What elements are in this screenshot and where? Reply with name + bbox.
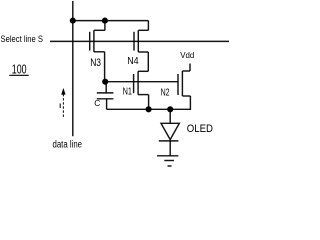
transistor N2 <box>178 64 190 97</box>
svg-text:N4: N4 <box>127 55 139 67</box>
node A wire (N3 source to N1/N2 gates) <box>105 81 178 83</box>
junction dot: top rail / N3 drain <box>102 18 108 24</box>
svg-text:OLED: OLED <box>187 123 214 135</box>
svg-text:100: 100 <box>12 62 27 77</box>
svg-text:C: C <box>94 98 100 108</box>
junction dot: bottom rail / N1 source <box>146 106 152 112</box>
svg-text:N1: N1 <box>123 86 133 97</box>
svg-text:N2: N2 <box>161 87 170 98</box>
bottom rail wire (cap/N1/N2 sources to OLED) <box>107 96 191 109</box>
current direction arrow <box>60 88 65 117</box>
svg-text:Select line S: Select line S <box>1 34 44 44</box>
ground <box>157 141 178 166</box>
node A junction dot <box>102 79 108 85</box>
junction dot: bottom rail / OLED anode <box>167 106 173 112</box>
svg-text:N3: N3 <box>90 57 101 69</box>
OLED diode D1 <box>159 109 180 141</box>
transistor N3 <box>90 21 105 82</box>
transistor N4 <box>134 21 148 72</box>
svg-text:data line: data line <box>53 140 83 151</box>
junction dot: data line / top rail <box>70 18 76 24</box>
capacitor C <box>97 82 114 110</box>
data line wire <box>72 1 74 136</box>
select line S wire <box>50 40 229 42</box>
transistor N1 <box>134 71 149 109</box>
svg-text:Vdd: Vdd <box>180 51 194 60</box>
top rail wire (data line to N3/N4 drains) <box>73 20 149 22</box>
